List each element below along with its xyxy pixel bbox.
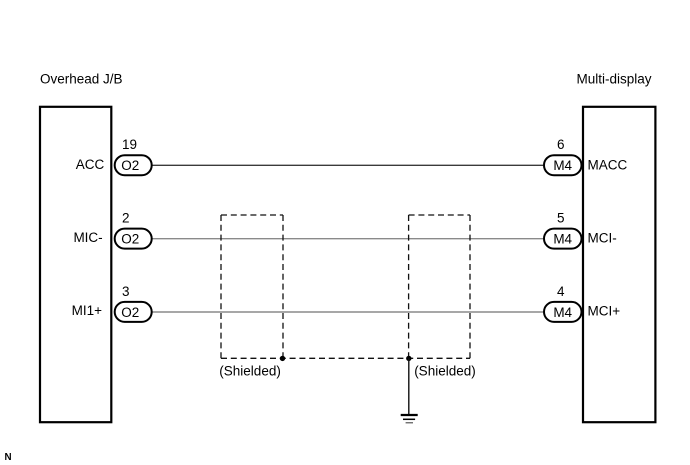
svg-text:N: N [5, 452, 12, 463]
svg-text:(Shielded): (Shielded) [414, 363, 476, 378]
svg-text:M4: M4 [553, 232, 572, 247]
svg-text:MACC: MACC [588, 157, 628, 172]
svg-text:MCI+: MCI+ [588, 303, 621, 318]
svg-text:M4: M4 [553, 158, 572, 173]
svg-text:M4: M4 [553, 305, 572, 320]
svg-text:MI1+: MI1+ [72, 303, 103, 318]
svg-text:5: 5 [557, 211, 565, 226]
svg-text:3: 3 [122, 284, 130, 299]
svg-text:Overhead J/B: Overhead J/B [40, 71, 123, 86]
svg-text:19: 19 [122, 137, 137, 152]
svg-text:2: 2 [122, 211, 130, 226]
svg-text:(Shielded): (Shielded) [219, 363, 281, 378]
svg-text:O2: O2 [121, 232, 139, 247]
svg-text:ACC: ACC [76, 157, 105, 172]
svg-text:O2: O2 [121, 305, 139, 320]
svg-text:MIC-: MIC- [73, 230, 102, 245]
svg-text:4: 4 [557, 284, 565, 299]
svg-text:MCI-: MCI- [588, 231, 617, 246]
svg-text:O2: O2 [121, 158, 139, 173]
svg-text:Multi-display: Multi-display [577, 71, 652, 86]
svg-text:6: 6 [557, 137, 565, 152]
